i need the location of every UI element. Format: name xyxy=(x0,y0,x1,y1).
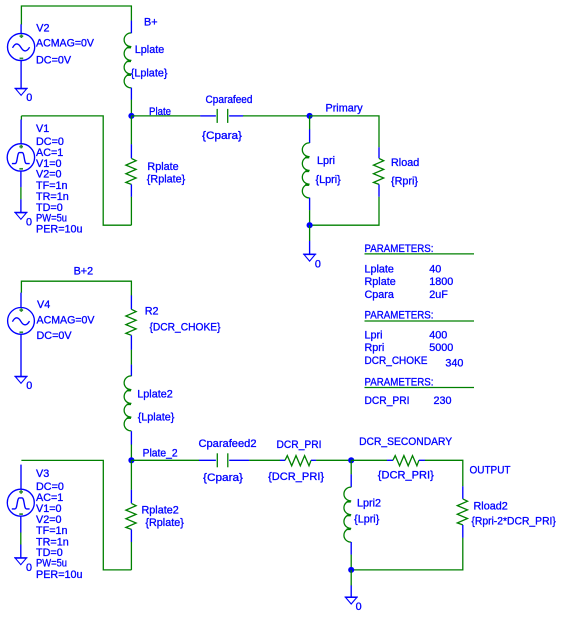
pin R2 bottom xyxy=(130,335,132,350)
wire junction to DCR_SECONDARY xyxy=(351,459,387,461)
svg-text:2uF: 2uF xyxy=(429,289,448,301)
wire Rload bottom rail xyxy=(310,197,379,226)
svg-text:Lpri: Lpri xyxy=(365,329,383,341)
pin Rplate2 top xyxy=(130,490,132,504)
pin Cparafeed left xyxy=(200,115,216,117)
svg-text:0: 0 xyxy=(315,259,321,271)
wire DCR_PRI to junction xyxy=(316,459,351,461)
pin ground primary xyxy=(309,241,311,254)
wire V3 to ground xyxy=(20,533,22,545)
svg-text:0: 0 xyxy=(26,216,32,228)
wire V3 loop xyxy=(21,460,131,570)
resistor DCR_PRI xyxy=(285,456,311,466)
svg-text:DCR_CHOKE: DCR_CHOKE xyxy=(365,355,428,367)
ground 0 below V4 xyxy=(14,376,27,383)
junction dot primary bottom xyxy=(307,222,313,228)
svg-text:V4: V4 xyxy=(37,299,50,311)
svg-text:ACMAG=0V: ACMAG=0V xyxy=(37,315,96,327)
svg-text:340: 340 xyxy=(445,358,463,370)
junction dot Plate_2 xyxy=(128,457,134,463)
wire Rplate2 bottom to V3 loop xyxy=(130,542,132,570)
pin V2 + xyxy=(20,24,22,33)
svg-text:PER=10u: PER=10u xyxy=(36,569,83,581)
wire junction down to Lpri2 xyxy=(350,460,352,474)
wire Primary to Rload xyxy=(310,116,379,147)
svg-text:0: 0 xyxy=(26,562,32,574)
svg-text:Lpri2: Lpri2 xyxy=(357,498,381,510)
table 2 underline xyxy=(365,320,475,322)
pin Rload2 top xyxy=(462,486,464,499)
wire Plate node down to Rplate xyxy=(130,116,132,144)
inductor Lpri2 xyxy=(344,487,351,542)
svg-text:TF=1n: TF=1n xyxy=(36,180,68,192)
voltage source V4 xyxy=(8,308,35,335)
voltage source V3 (pulse) xyxy=(7,489,34,516)
wire Plate to Cparafeed xyxy=(131,115,200,117)
pin Lplate2 bottom xyxy=(130,431,132,444)
svg-text:{Lpri}: {Lpri} xyxy=(354,513,380,525)
svg-text:Plate_2: Plate_2 xyxy=(143,448,178,460)
resistor R2 xyxy=(126,309,136,335)
voltage source V1 (pulse) xyxy=(7,144,34,171)
svg-text:{Rpri}: {Rpri} xyxy=(391,176,418,188)
pin Lplate top xyxy=(130,21,132,34)
pin Lplate bottom xyxy=(130,88,132,100)
wire to ground below Lpri xyxy=(309,225,311,241)
svg-text:Lpri: Lpri xyxy=(317,155,335,167)
svg-text:V2=0: V2=0 xyxy=(36,169,62,181)
pin Rload top xyxy=(378,147,380,158)
pin Lpri2 bottom xyxy=(350,542,352,555)
pin Rplate bottom xyxy=(130,184,132,197)
pin Cparafeed right xyxy=(229,115,243,117)
capacitor Cparafeed2 xyxy=(217,453,228,467)
svg-text:Primary: Primary xyxy=(326,103,364,115)
wire Lplate2 to Plate_2 xyxy=(130,445,132,461)
ground 0 primary side xyxy=(303,254,316,261)
junction dot secondary xyxy=(348,457,354,463)
svg-text:DC=0V: DC=0V xyxy=(37,330,73,342)
pin Cparafeed2 right xyxy=(229,459,249,461)
svg-text:Cparafeed2: Cparafeed2 xyxy=(199,438,257,450)
svg-text:DCR_PRI: DCR_PRI xyxy=(277,439,322,451)
svg-text:V3: V3 xyxy=(36,468,49,480)
pin V1 - xyxy=(20,171,22,187)
wire Cparafeed2 to DCR_PRI xyxy=(249,459,280,461)
svg-text:{Lplate}: {Lplate} xyxy=(131,67,168,79)
svg-text:OUTPUT: OUTPUT xyxy=(470,465,511,477)
wire Lpri2 bottom xyxy=(350,555,352,570)
wire Lpri bottom xyxy=(309,210,311,225)
pin Rplate2 bottom xyxy=(130,529,132,542)
svg-text:{Lplate}: {Lplate} xyxy=(138,412,175,424)
svg-text:{DCR_CHOKE}: {DCR_CHOKE} xyxy=(150,322,221,334)
svg-text:PER=10u: PER=10u xyxy=(36,224,83,236)
table 1 underline xyxy=(365,253,475,255)
pin Lpri top xyxy=(309,129,311,143)
svg-text:Rplate: Rplate xyxy=(365,276,396,288)
wire V1 loop left xyxy=(20,116,22,120)
svg-text:V2=0: V2=0 xyxy=(36,514,62,526)
svg-text:Rplate2: Rplate2 xyxy=(142,504,179,516)
svg-text:{Cpara}: {Cpara} xyxy=(202,130,242,142)
pin R2 top xyxy=(130,295,132,309)
svg-text:{Rpri-2*DCR_PRI}: {Rpri-2*DCR_PRI} xyxy=(471,515,556,527)
svg-text:Lplate2: Lplate2 xyxy=(137,389,172,401)
pin ground secondary xyxy=(350,585,352,597)
pin ground V1 xyxy=(20,199,22,212)
svg-text:ACMAG=0V: ACMAG=0V xyxy=(36,38,95,50)
pin DCR_PRI left xyxy=(280,459,285,461)
wire Cparafeed to Primary xyxy=(243,115,310,117)
wire V1 to ground xyxy=(20,187,22,199)
svg-text:0: 0 xyxy=(26,380,32,392)
wire Plate_2 to Cparafeed2 xyxy=(131,459,199,461)
resistor Rplate xyxy=(126,158,136,184)
svg-text:{Rplate}: {Rplate} xyxy=(145,517,184,529)
pin V4 + xyxy=(20,293,22,308)
pin Lplate2 top xyxy=(130,365,132,377)
pin V3 - xyxy=(20,516,22,533)
pin Rload2 bottom xyxy=(462,525,464,538)
wire Rload2 bottom rail xyxy=(351,538,463,570)
inductor Lplate2 xyxy=(124,376,131,431)
svg-text:{Lpri}: {Lpri} xyxy=(316,174,342,186)
svg-text:0: 0 xyxy=(356,601,362,613)
ground 0 below V3 xyxy=(14,558,27,565)
wire V1 top rail xyxy=(21,116,131,225)
svg-text:40: 40 xyxy=(429,264,441,276)
pin Rload bottom xyxy=(378,184,380,196)
pin DCR_SECONDARY left xyxy=(387,459,393,461)
svg-text:{Cpara}: {Cpara} xyxy=(203,472,243,484)
junction dot secondary bottom xyxy=(348,567,354,573)
svg-text:R2: R2 xyxy=(145,305,159,317)
junction dot Plate xyxy=(128,113,134,119)
svg-text:PARAMETERS:: PARAMETERS: xyxy=(365,377,434,389)
svg-text:{DCR_PRI}: {DCR_PRI} xyxy=(268,471,324,483)
pin DCR_SECONDARY right xyxy=(419,459,425,461)
ground 0 below V2 xyxy=(14,88,27,95)
svg-text:Rload2: Rload2 xyxy=(474,500,508,512)
svg-text:1800: 1800 xyxy=(429,276,453,288)
wire Plate_2 down to Rplate2 xyxy=(130,460,132,490)
svg-text:Rplate: Rplate xyxy=(147,161,178,173)
svg-text:Cpara: Cpara xyxy=(365,289,394,301)
inductor Lplate xyxy=(124,33,131,88)
wire Rplate bottom to V1 loop xyxy=(130,197,132,225)
svg-text:V1: V1 xyxy=(36,123,49,135)
resistor Rplate2 xyxy=(126,503,136,529)
ground 0 below V1 xyxy=(14,212,27,219)
svg-text:400: 400 xyxy=(429,329,447,341)
svg-text:Rload: Rload xyxy=(391,157,419,169)
svg-text:DC=0V: DC=0V xyxy=(36,55,72,67)
svg-text:B+2: B+2 xyxy=(74,266,94,278)
svg-text:Lplate: Lplate xyxy=(365,264,394,276)
pin Lpri bottom xyxy=(309,198,311,211)
pin V2 - xyxy=(20,61,22,89)
pin Cparafeed2 left xyxy=(199,459,216,461)
resistor Rload2 xyxy=(457,499,467,525)
pin Rplate top xyxy=(130,144,132,158)
svg-text:230: 230 xyxy=(434,395,452,407)
wire B+2 rail from V4 to R2 xyxy=(21,281,131,295)
pin V3 + xyxy=(20,465,22,490)
svg-text:V2: V2 xyxy=(36,23,49,35)
pin Lpri2 top xyxy=(350,474,352,487)
capacitor Cparafeed xyxy=(217,109,228,123)
svg-text:{DCR_PRI}: {DCR_PRI} xyxy=(378,470,434,482)
resistor Rload xyxy=(374,158,384,184)
svg-text:PW=5u: PW=5u xyxy=(36,558,67,570)
svg-text:0: 0 xyxy=(26,92,32,104)
pin ground V3 xyxy=(20,545,22,558)
voltage source V2 xyxy=(8,33,35,60)
wire DCR_SECONDARY to OUTPUT corner xyxy=(425,460,463,486)
svg-text:DCR_SECONDARY: DCR_SECONDARY xyxy=(359,436,452,448)
svg-text:Rpri: Rpri xyxy=(365,342,385,354)
svg-text:5000: 5000 xyxy=(429,342,453,354)
svg-text:Cparafeed: Cparafeed xyxy=(206,94,253,106)
pin DCR_PRI right xyxy=(311,459,316,461)
wire to ground below Lpri2 xyxy=(350,570,352,586)
junction dot Primary xyxy=(307,113,313,119)
wire R2 to Lplate2 xyxy=(130,350,132,365)
svg-text:B+: B+ xyxy=(144,16,158,28)
wire B+ rail from V2 to Lplate xyxy=(21,6,131,25)
svg-text:TF=1n: TF=1n xyxy=(36,525,68,537)
inductor Lpri xyxy=(302,143,309,198)
svg-text:PW=5u: PW=5u xyxy=(36,213,67,225)
svg-text:{Rplate}: {Rplate} xyxy=(147,174,186,186)
svg-text:DCR_PRI: DCR_PRI xyxy=(365,395,410,407)
wire Primary down to Lpri xyxy=(309,116,311,130)
pin V4 - xyxy=(20,334,22,376)
svg-text:Lplate: Lplate xyxy=(135,44,164,56)
resistor DCR_SECONDARY xyxy=(393,456,419,466)
table 3 underline xyxy=(365,387,475,389)
pin V1 + xyxy=(20,120,22,144)
ground 0 secondary side xyxy=(345,597,358,604)
svg-text:PARAMETERS:: PARAMETERS: xyxy=(365,310,434,322)
wire Lplate to Plate node xyxy=(130,100,132,116)
